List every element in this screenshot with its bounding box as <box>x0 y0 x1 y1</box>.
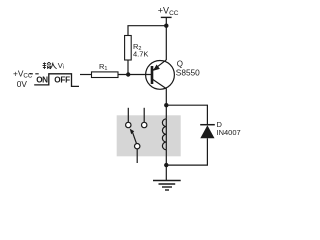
wire collector node to diode branch <box>166 105 207 124</box>
wire input lead to R1 <box>80 74 92 76</box>
relay contact movable stub <box>136 149 138 163</box>
resistor R2 <box>125 36 149 61</box>
node top junction dot <box>164 24 168 28</box>
resistor R1 <box>92 62 119 78</box>
relay contact movable terminal <box>135 144 140 149</box>
diode D IN4007 <box>200 120 240 138</box>
relay contact fixed stub left <box>127 108 129 123</box>
wire VCC bar to top junction <box>165 17 167 26</box>
wire VCC level dash <box>30 73 40 75</box>
relay contact fixed terminal left <box>126 122 131 127</box>
wire collector down <box>165 88 167 105</box>
wire R2 bottom to base node <box>127 60 129 75</box>
relay body K1 <box>117 115 181 156</box>
node ground junction dot <box>164 163 168 167</box>
relay contact fixed stub right <box>143 108 145 123</box>
svg-text:S8550: S8550 <box>176 68 200 78</box>
svg-text:4.7K: 4.7K <box>133 50 148 59</box>
relay contact movable arm <box>133 133 137 144</box>
wire emitter to top junction <box>165 26 167 60</box>
svg-text:IN4007: IN4007 <box>217 128 241 137</box>
label input waveform 输入Vi <box>43 62 57 69</box>
waveform input pulse <box>34 74 79 87</box>
wire R1 to base <box>118 74 151 76</box>
relay contact fixed terminal right <box>142 122 147 127</box>
relay contact arm arrowhead <box>130 129 135 135</box>
svg-text:OFF: OFF <box>54 75 70 84</box>
node base junction dot <box>126 72 130 76</box>
relay coil L <box>162 105 166 165</box>
svg-text:ON: ON <box>36 75 48 84</box>
transistor Q S8550 <box>146 59 201 89</box>
node collector junction dot <box>164 103 168 107</box>
svg-text:0V: 0V <box>17 79 28 89</box>
ground <box>153 165 181 190</box>
wire top rail to R2 <box>128 26 166 36</box>
node +VCC top rail <box>158 6 179 18</box>
wire diode anode to bottom rail <box>166 138 207 165</box>
